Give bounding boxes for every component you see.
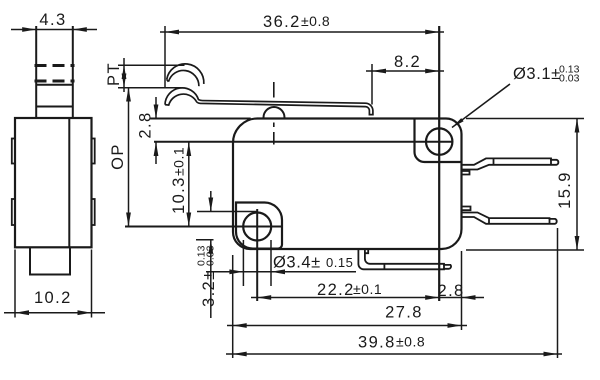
upper terminal tip cap xyxy=(550,158,552,164)
svg-text:0.15: 0.15 xyxy=(326,255,353,270)
lower terminal xyxy=(462,213,557,224)
svg-text:±0.8: ±0.8 xyxy=(396,334,425,350)
plunger (side view) xyxy=(36,26,73,118)
hole2 horizontal centerline xyxy=(154,141,452,143)
lower-left mounting boss xyxy=(236,203,282,249)
mounting hole upper-right xyxy=(426,128,452,154)
plunger dome xyxy=(264,107,285,119)
svg-text:2.8: 2.8 xyxy=(137,111,155,138)
switch body (side view) xyxy=(15,118,92,247)
svg-text:Ø3.1±: Ø3.1± xyxy=(513,65,561,83)
bottom base block (side view) xyxy=(30,247,70,274)
dimension 2.8 (left) xyxy=(137,97,251,164)
body seam line (side view) xyxy=(68,118,70,247)
svg-text:2.8: 2.8 xyxy=(438,282,465,300)
dimension 10.2 xyxy=(4,250,105,318)
lower terminal fold line xyxy=(488,218,490,224)
svg-text:10.2: 10.2 xyxy=(34,289,72,307)
lower terminal tip cap xyxy=(549,218,551,224)
dimension 27.8 xyxy=(227,255,467,358)
svg-text:Ø3.4±: Ø3.4± xyxy=(273,254,321,272)
right mounting tab upper xyxy=(92,139,95,164)
svg-text:39.8: 39.8 xyxy=(358,334,396,352)
dimension 3.2 +0.13/-0.03 xyxy=(196,191,258,318)
svg-text:27.8: 27.8 xyxy=(385,304,423,322)
plunger free-position dashed line xyxy=(35,64,75,67)
center terminal root stub xyxy=(365,249,368,253)
dimension OP xyxy=(109,88,131,227)
svg-text:8.2: 8.2 xyxy=(394,53,421,71)
svg-text:±0.1: ±0.1 xyxy=(171,147,187,176)
svg-text:10.3: 10.3 xyxy=(170,176,188,214)
hole2 vertical centerline / extension xyxy=(438,26,440,301)
dimension PT xyxy=(105,58,185,92)
svg-text:4.3: 4.3 xyxy=(39,11,66,29)
dimension 15.9 xyxy=(466,119,584,251)
lever upper curl (free position) xyxy=(167,64,204,86)
left mounting tab upper xyxy=(12,139,15,164)
hole1 horizontal centerline xyxy=(125,226,281,228)
svg-text:0.03: 0.03 xyxy=(559,73,580,85)
svg-text:±0.8: ±0.8 xyxy=(301,13,330,29)
center terminal fold line xyxy=(383,264,385,270)
dimension 2.8 (bottom right) xyxy=(438,251,485,330)
mounting hole lower-left xyxy=(243,213,271,241)
dimension 10.3±0.1 xyxy=(170,142,191,227)
dimension 39.8±0.8 xyxy=(226,228,562,358)
dimension 4.3 xyxy=(11,11,97,32)
hole1 vertical centerline xyxy=(256,209,258,301)
lower body tab xyxy=(462,207,471,211)
svg-text:36.2: 36.2 xyxy=(263,13,301,31)
left mounting tab lower xyxy=(12,199,15,225)
upper-right mounting boss xyxy=(415,119,462,163)
dimension 8.2 xyxy=(366,53,444,105)
switch body outline xyxy=(233,118,462,249)
dimension Ø3.4±0.15 with tangent extension lines xyxy=(206,240,356,286)
dimension 36.2±0.8 xyxy=(160,13,444,88)
label Ø3.1 with leader xyxy=(452,64,580,128)
svg-text:3.2±: 3.2± xyxy=(200,269,218,307)
svg-text:OP: OP xyxy=(109,143,127,170)
svg-text:22.2: 22.2 xyxy=(317,281,355,299)
plunger mid-position dashed line xyxy=(35,80,75,83)
upper terminal fold line xyxy=(493,158,495,164)
svg-text:±0.1: ±0.1 xyxy=(353,281,382,297)
lever lower curl and arm with bent end xyxy=(165,88,373,115)
dimension 22.2±0.1 xyxy=(251,281,462,300)
svg-text:15.9: 15.9 xyxy=(556,171,574,209)
upper body tab xyxy=(462,171,470,175)
upper terminal xyxy=(462,158,559,169)
center bottom terminal xyxy=(358,249,451,269)
right mounting tab lower xyxy=(92,199,95,225)
plunger centerline xyxy=(273,82,275,145)
center terminal tip cap xyxy=(443,264,445,270)
